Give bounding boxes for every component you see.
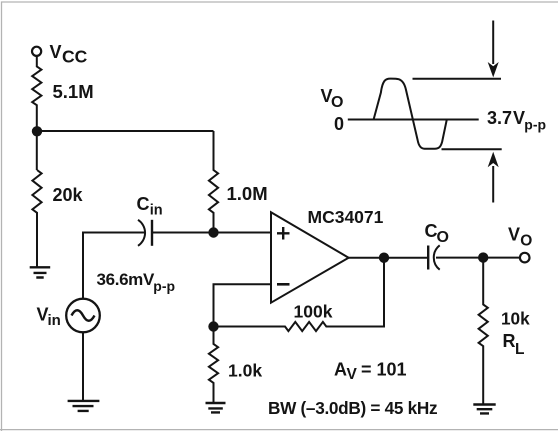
svg-text:V: V — [508, 224, 520, 244]
svg-text:10k: 10k — [501, 309, 530, 329]
svg-text:36.6mV: 36.6mV — [97, 270, 155, 289]
svg-text:p-p: p-p — [153, 278, 175, 294]
svg-text:100k: 100k — [294, 302, 333, 322]
svg-text:L: L — [515, 341, 524, 358]
svg-text:MC34071: MC34071 — [308, 207, 384, 227]
svg-text:R: R — [503, 331, 516, 351]
svg-text:3.7: 3.7 — [487, 108, 512, 128]
svg-text:20k: 20k — [53, 185, 84, 205]
svg-text:in: in — [150, 202, 163, 218]
svg-text:V: V — [347, 366, 358, 383]
svg-text:0: 0 — [334, 114, 344, 134]
svg-text:CC: CC — [62, 47, 88, 67]
svg-text:= 101: = 101 — [361, 360, 407, 380]
svg-text:A: A — [334, 360, 347, 380]
svg-text:O: O — [520, 233, 532, 250]
svg-text:in: in — [48, 312, 61, 329]
svg-text:C: C — [137, 194, 150, 214]
svg-text:V: V — [50, 42, 62, 62]
svg-text:O: O — [331, 94, 343, 111]
svg-text:V: V — [513, 108, 525, 128]
svg-text:5.1M: 5.1M — [53, 81, 94, 102]
svg-text:O: O — [437, 229, 449, 246]
svg-text:BW (–3.0dB) = 45 kHz: BW (–3.0dB) = 45 kHz — [268, 398, 437, 418]
svg-text:1.0M: 1.0M — [227, 183, 268, 204]
svg-text:1.0k: 1.0k — [228, 361, 262, 381]
svg-text:p-p: p-p — [524, 117, 546, 133]
